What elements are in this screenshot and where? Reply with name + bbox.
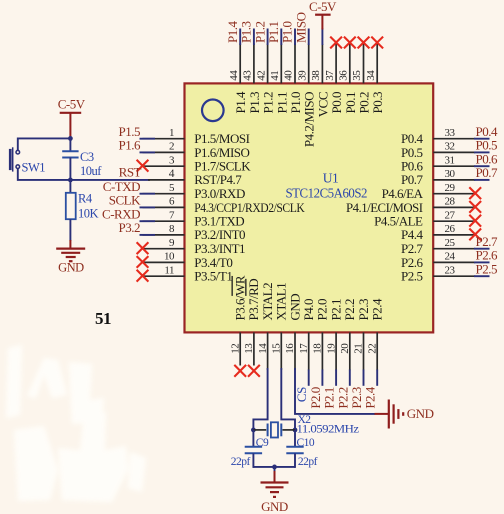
net stub P2.4	[376, 370, 378, 386]
gnd symbol bottom stem	[274, 471, 276, 483]
pin 9 wire	[143, 248, 185, 250]
no-connect X pin 26	[469, 229, 481, 241]
svg-text:15: 15	[271, 343, 283, 354]
svg-text:P2.7: P2.7	[401, 241, 423, 256]
svg-text:P2.7: P2.7	[476, 234, 498, 249]
svg-text:1: 1	[169, 127, 174, 139]
svg-text:RST/P4.7: RST/P4.7	[194, 172, 242, 187]
switch SW1 top contact	[16, 150, 20, 154]
svg-text:P1.6: P1.6	[119, 138, 141, 153]
svg-text:P3.5/T1: P3.5/T1	[194, 269, 232, 284]
no-connect X pin 9	[137, 242, 149, 254]
net stub P2.5	[474, 275, 490, 277]
svg-text:17: 17	[298, 343, 310, 354]
no-connect X pin 3	[137, 160, 149, 172]
capacitor C9 plate1	[245, 446, 262, 448]
svg-text:GND: GND	[261, 499, 288, 514]
svg-text:C9: C9	[256, 437, 269, 449]
svg-text:P0.5: P0.5	[476, 138, 497, 153]
wire from crystal right	[283, 429, 296, 431]
svg-text:C3: C3	[80, 150, 94, 164]
chip pin-1 circle	[202, 100, 224, 122]
gnd symbol left bar1	[56, 248, 85, 250]
svg-text:P2.5: P2.5	[476, 261, 497, 276]
svg-text:P2.5: P2.5	[401, 269, 422, 284]
net stub P3.2	[140, 234, 156, 236]
svg-text:11: 11	[164, 264, 174, 276]
svg-text:27: 27	[445, 209, 456, 221]
svg-text:GND: GND	[58, 261, 84, 275]
wire R4 top	[69, 180, 71, 193]
resistor R4	[66, 193, 76, 219]
gnd symbol left bar4	[69, 260, 73, 262]
node RST junction	[68, 178, 73, 183]
gnd symbol right bar1	[388, 400, 390, 429]
power port C-5V stem	[321, 15, 323, 30]
svg-text:P2.4: P2.4	[363, 386, 378, 408]
crystal X2 left plate	[267, 424, 269, 437]
svg-text:18: 18	[312, 343, 324, 354]
no-connect X pin 37	[330, 37, 342, 49]
pin 25 wire	[433, 248, 475, 250]
svg-text:20: 20	[339, 343, 351, 354]
pin 38 wire	[321, 44, 323, 83]
pin 3 wire	[143, 165, 185, 167]
svg-text:41: 41	[269, 71, 281, 81]
wire R4 bottom	[69, 219, 71, 241]
net stub P0.7	[474, 179, 490, 181]
svg-text:P3.2/INT0: P3.2/INT0	[194, 227, 245, 242]
svg-text:43: 43	[242, 70, 254, 81]
svg-text:33: 33	[445, 127, 456, 139]
net stub P2.3	[363, 370, 365, 386]
svg-text:14: 14	[257, 343, 269, 354]
switch SW1 actuator bar	[9, 149, 12, 170]
gnd symbol bottom bar4	[273, 496, 276, 498]
crystal X2 body	[271, 422, 278, 437]
svg-text:P4.4: P4.4	[401, 227, 423, 242]
pin 41 wire	[280, 44, 282, 84]
no-connect X pin 13	[248, 365, 260, 377]
svg-text:32: 32	[445, 141, 455, 153]
wire C-5V to SW1	[18, 138, 71, 150]
wire C9 bottom	[252, 453, 254, 468]
svg-text:31: 31	[445, 154, 455, 166]
no-connect X pin 29	[469, 187, 481, 199]
pin 28 wire	[433, 206, 475, 208]
wire XTAL2	[253, 368, 267, 430]
net stub MISO	[308, 29, 310, 46]
svg-text:STC12C5A60S2: STC12C5A60S2	[286, 186, 368, 201]
pin 42 wire	[267, 44, 269, 84]
node XTAL2 junction	[251, 428, 256, 433]
pin 40 wire	[294, 44, 296, 84]
net stub P2.0	[321, 370, 323, 386]
svg-text:10uf: 10uf	[80, 164, 102, 178]
net stub P0.5	[474, 151, 490, 153]
node gnd rail junction	[272, 465, 277, 470]
chip U1 body	[185, 83, 434, 332]
wire C3 bottom	[69, 158, 71, 180]
pin 24 wire	[433, 261, 475, 263]
svg-text:P0.7: P0.7	[401, 172, 423, 187]
net stub P1.0	[294, 29, 296, 46]
svg-text:25: 25	[445, 237, 456, 249]
wire VCC	[321, 28, 323, 45]
pin 7 wire	[143, 220, 185, 222]
node C3 top junction	[68, 136, 73, 141]
svg-text:39: 39	[296, 70, 308, 81]
no-connect X pin 28	[469, 201, 481, 213]
svg-text:P3.2: P3.2	[119, 220, 140, 235]
net stub P1.3	[253, 29, 255, 46]
svg-text:C-5V: C-5V	[309, 0, 337, 14]
pin 13 wire	[253, 332, 255, 365]
gnd symbol bottom bar1	[261, 481, 289, 483]
svg-text:P2.4: P2.4	[370, 298, 385, 320]
no-connect X pin 11	[137, 270, 149, 282]
svg-text:P4.6/EA: P4.6/EA	[382, 186, 424, 201]
net stub P2.1	[335, 370, 337, 386]
svg-text:10: 10	[164, 251, 175, 263]
pin 1 wire	[143, 138, 185, 140]
pin 39 wire	[308, 44, 310, 84]
svg-text:4: 4	[169, 168, 175, 180]
svg-text:SW1: SW1	[22, 161, 46, 175]
no-connect X pin 36	[344, 37, 356, 49]
svg-text:C10: C10	[297, 437, 315, 449]
svg-text:P1.5/MOSI: P1.5/MOSI	[194, 131, 249, 146]
pin 26 wire	[433, 234, 475, 236]
power port C-5V bar	[315, 14, 331, 16]
svg-text:36: 36	[338, 70, 350, 81]
switch SW1 actuator line	[12, 147, 14, 171]
net stub P2.6	[474, 261, 490, 263]
power port C-5V left bar	[60, 112, 81, 114]
gnd symbol bottom bar3	[270, 491, 279, 493]
pin 34 wire	[376, 44, 378, 84]
wire gnd stem	[274, 467, 276, 472]
svg-text:RST: RST	[119, 165, 142, 180]
svg-text:38: 38	[310, 70, 322, 81]
net stub P1.4	[239, 29, 241, 46]
svg-text:19: 19	[325, 343, 337, 354]
svg-text:12: 12	[229, 344, 241, 354]
node XTAL1 junction	[293, 428, 298, 433]
svg-text:23: 23	[445, 264, 456, 276]
wire SW1 to RST	[18, 169, 71, 180]
pin 33 wire	[433, 138, 475, 140]
svg-text:P0.7: P0.7	[476, 165, 498, 180]
svg-text:35: 35	[351, 70, 363, 81]
net stub C-TXD	[140, 193, 156, 195]
svg-text:42: 42	[255, 71, 267, 81]
gnd symbol left bar2	[61, 252, 80, 254]
svg-text:34: 34	[365, 70, 377, 81]
wire GND run	[295, 368, 375, 414]
pin 32 wire	[433, 151, 475, 153]
svg-text:11.0592MHz: 11.0592MHz	[297, 423, 359, 435]
gnd symbol right stem	[375, 413, 389, 415]
pin 37 wire	[335, 44, 337, 84]
pin 21 wire	[363, 332, 365, 370]
pin 31 wire	[433, 165, 475, 167]
svg-text:10K: 10K	[78, 207, 99, 221]
wire C9 top	[252, 430, 254, 447]
pin 8 wire	[143, 234, 185, 236]
svg-text:P0.3: P0.3	[370, 92, 385, 113]
pin 43 wire	[253, 44, 255, 84]
pin 27 wire	[433, 220, 475, 222]
svg-text:U1: U1	[323, 171, 339, 186]
pin 11 wire	[143, 275, 185, 277]
gnd symbol left stem	[69, 240, 71, 249]
pin 2 wire	[143, 151, 185, 153]
no-connect X pin 35	[358, 37, 370, 49]
svg-text:28: 28	[445, 196, 456, 208]
svg-text:22pf: 22pf	[298, 456, 318, 468]
svg-text:GND: GND	[407, 406, 434, 421]
svg-text:22pf: 22pf	[231, 456, 251, 468]
net stub C-RXD	[140, 220, 156, 222]
pin 44 wire	[239, 44, 241, 84]
svg-text:44: 44	[228, 70, 240, 81]
pin 35 wire	[363, 44, 365, 84]
wire XTAL1	[281, 368, 295, 430]
net stub P1.6	[140, 151, 156, 153]
net stub P1.2	[267, 29, 269, 46]
capacitor C3 plate2	[62, 157, 78, 159]
svg-text:2: 2	[169, 141, 174, 153]
pin 17 wire	[308, 332, 310, 370]
svg-text:SCLK: SCLK	[109, 193, 141, 208]
no-connect X pin 34	[371, 37, 383, 49]
no-connect X pin 10	[137, 256, 149, 268]
svg-text:R4: R4	[78, 192, 93, 206]
net stub P0.4	[474, 138, 490, 140]
net stub CS	[308, 370, 310, 386]
pin 22 wire	[376, 332, 378, 370]
pin 23 wire	[433, 275, 475, 277]
gnd symbol right bar2	[393, 404, 395, 423]
net stub P1.1	[280, 29, 282, 46]
net stub P0.6	[474, 165, 490, 167]
gnd symbol right bar3	[397, 409, 399, 419]
pin 19 wire	[335, 332, 337, 370]
pin 6 wire	[143, 206, 185, 208]
gnd symbol bottom bar2	[266, 486, 284, 488]
pin 4 wire	[148, 179, 185, 181]
pin 12 wire	[239, 332, 241, 365]
capacitor C9 plate2	[245, 452, 262, 454]
gnd symbol left bar3	[66, 256, 76, 258]
pin 10 wire	[143, 261, 185, 263]
net stub P2.2	[349, 370, 351, 386]
wire C3 top	[69, 138, 71, 151]
pin 15 wire	[280, 332, 282, 370]
power port C-5V left stem	[69, 113, 71, 139]
svg-text:MISO: MISO	[293, 12, 308, 43]
svg-text:37: 37	[324, 70, 336, 81]
capacitor C3 plate1	[62, 150, 78, 152]
svg-text:51: 51	[95, 309, 111, 328]
svg-text:P0.4: P0.4	[401, 131, 423, 146]
pin 18 wire	[321, 332, 323, 370]
capacitor C10 plate2	[286, 452, 303, 454]
net stub P1.5	[140, 138, 156, 140]
svg-text:P3.0/RXD: P3.0/RXD	[194, 186, 245, 201]
pin 30 wire	[433, 179, 475, 181]
wire C10 bottom	[294, 453, 296, 468]
net stub P2.7	[474, 248, 490, 250]
crystal X2 right plate	[280, 424, 282, 437]
wire C10 top	[294, 430, 296, 447]
wire RST net	[70, 179, 150, 181]
pin 14 wire	[267, 332, 269, 370]
svg-text:13: 13	[243, 343, 255, 354]
gnd symbol right bar4	[402, 412, 404, 416]
svg-text:40: 40	[283, 70, 295, 81]
svg-text:C-5V: C-5V	[58, 96, 86, 111]
capacitor C10 plate1	[286, 446, 303, 448]
svg-text:16: 16	[284, 343, 296, 354]
pin 5 wire	[143, 193, 185, 195]
pin 29 wire	[433, 193, 475, 195]
pin 20 wire	[349, 332, 351, 370]
switch SW1 bottom contact	[16, 165, 20, 169]
wire to crystal left	[253, 429, 266, 431]
faint watermark blobs	[6, 345, 146, 502]
net stub SCLK	[140, 206, 156, 208]
svg-text:30: 30	[445, 168, 456, 180]
svg-text:24: 24	[445, 251, 456, 263]
pin 16 wire	[294, 332, 296, 370]
svg-text:22: 22	[366, 344, 378, 354]
no-connect X pin 12	[234, 365, 246, 377]
svg-text:26: 26	[445, 223, 456, 235]
no-connect X pin 27	[469, 215, 481, 227]
wire gnd rail	[253, 466, 295, 468]
pin 36 wire	[349, 44, 351, 84]
svg-text:29: 29	[445, 182, 456, 194]
svg-text:P3.3/INT1: P3.3/INT1	[194, 241, 245, 256]
svg-text:21: 21	[353, 344, 365, 354]
